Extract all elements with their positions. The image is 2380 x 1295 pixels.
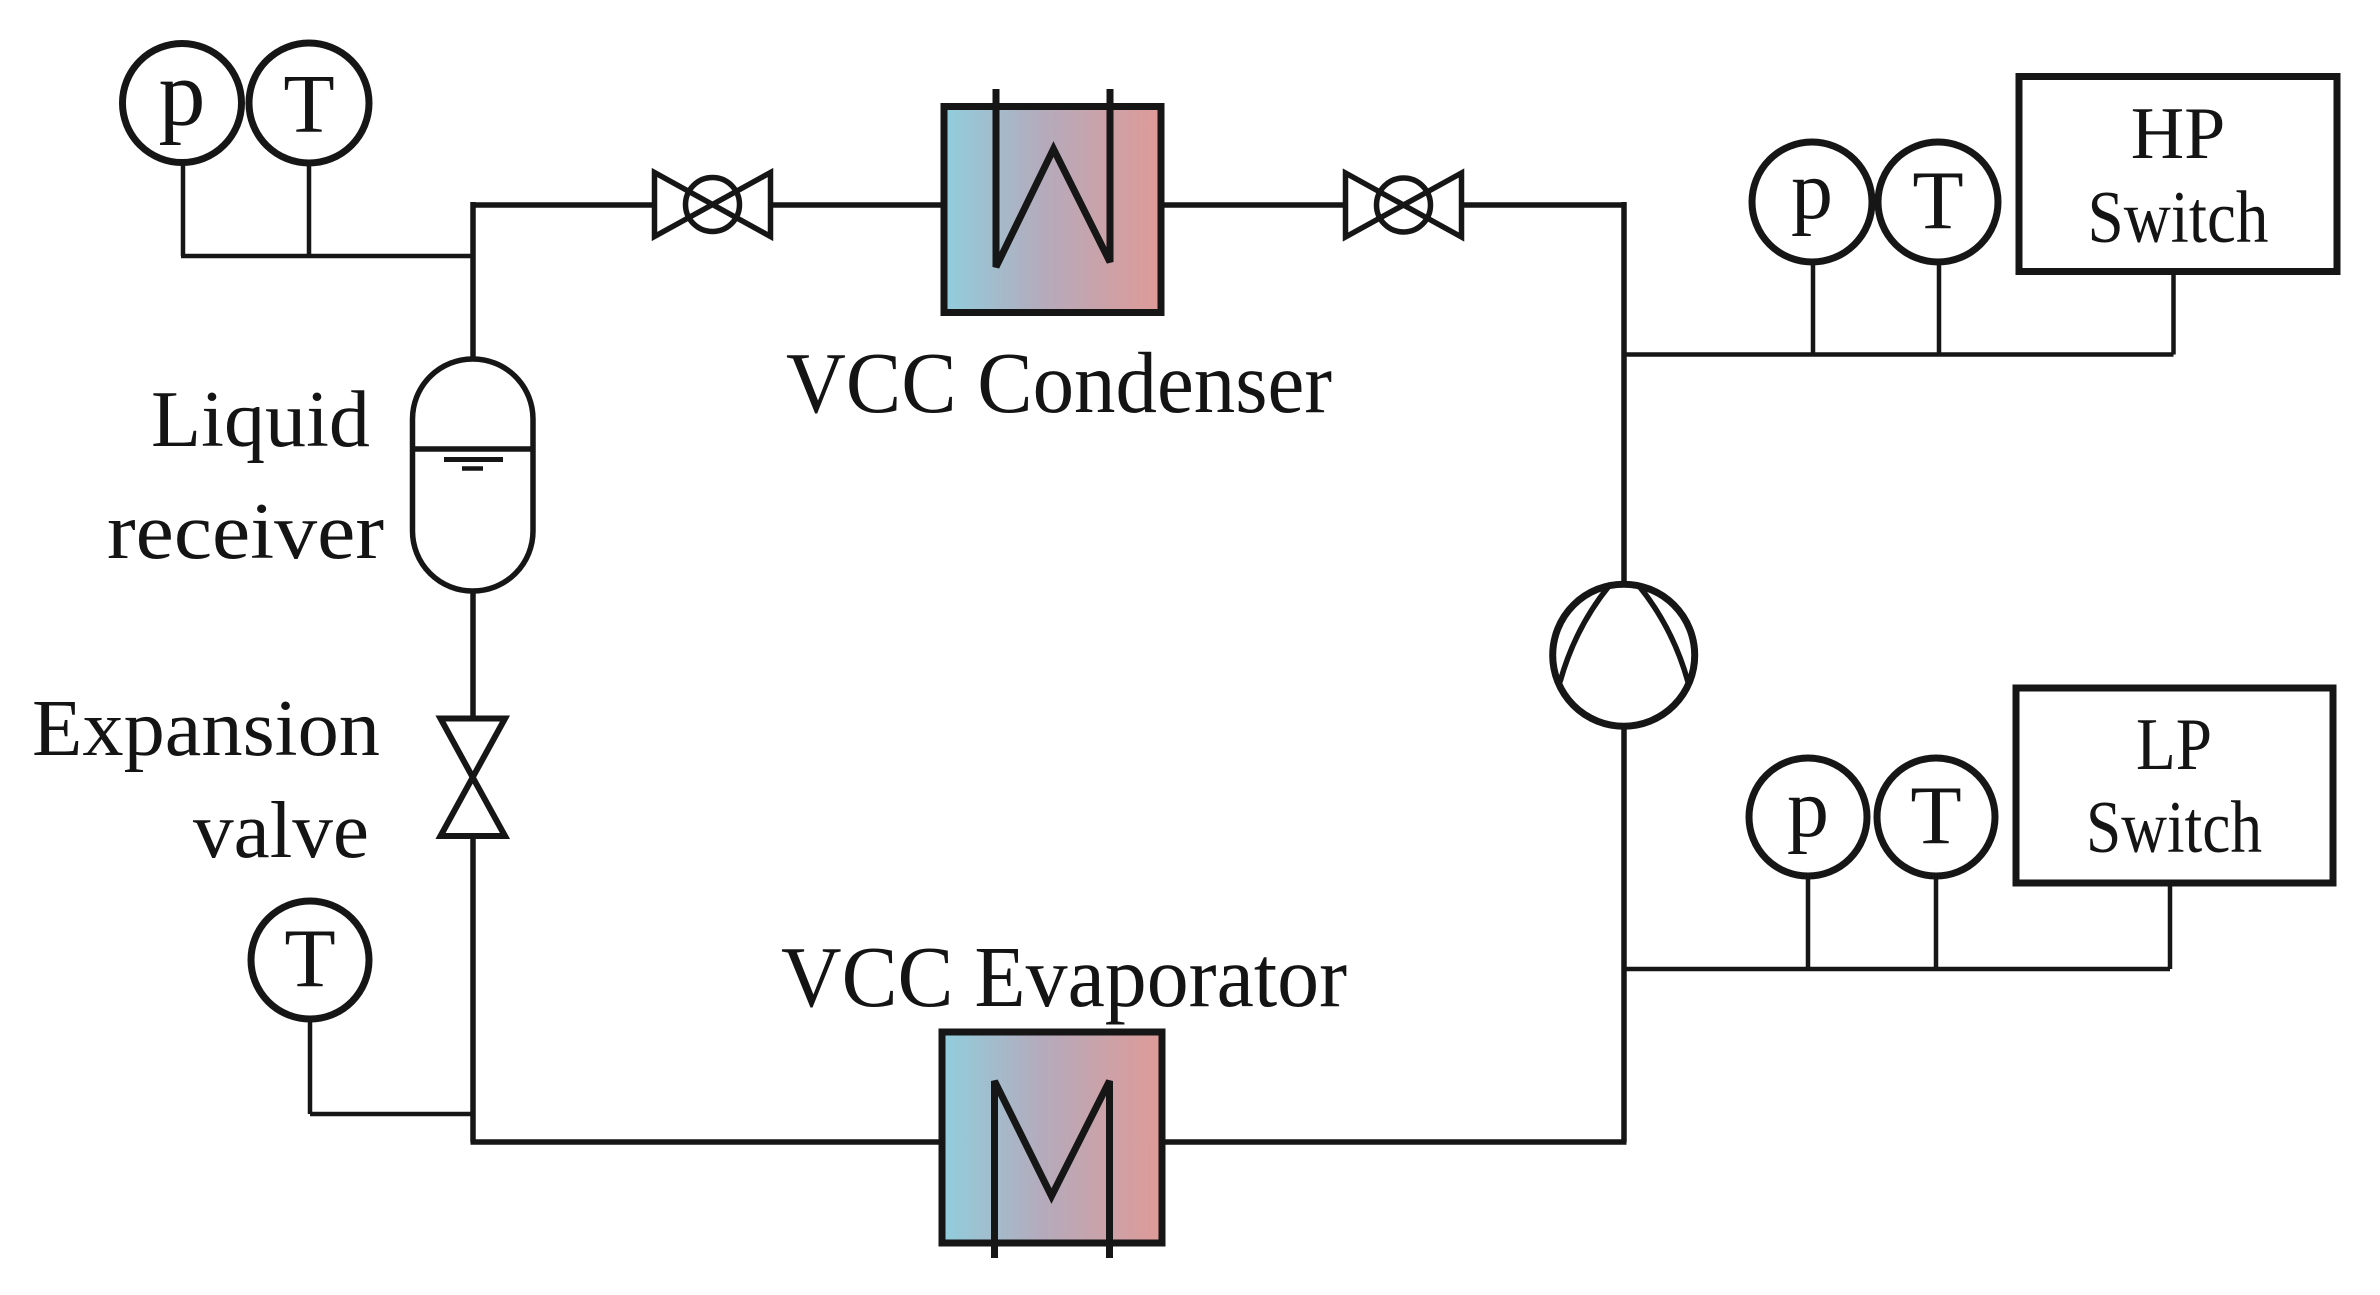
wire: T4 harness horizontal to left pipe bbox=[310, 1112, 473, 1117]
svg-text:VCC Condenser: VCC Condenser bbox=[786, 334, 1332, 431]
wire: discharge harness horizontal bbox=[1624, 352, 2174, 357]
wire: pressure gauge P1 stem bbox=[181, 160, 186, 256]
label: Liquid receiver bbox=[107, 376, 384, 576]
wire: right vertical pipe from node B down to compressor inlet bbox=[1621, 202, 1627, 586]
gauge T3 (suction temperature) bbox=[1877, 758, 1995, 876]
svg-text:T: T bbox=[283, 58, 334, 151]
svg-text:Expansion: Expansion bbox=[32, 685, 380, 773]
svg-text:Switch: Switch bbox=[2088, 177, 2269, 259]
evaporator coil zigzag with stubs down bbox=[995, 1081, 1110, 1258]
wire: left vertical pipe from receiver up to node A bbox=[470, 202, 476, 359]
gauge T1 (liquid line temperature) bbox=[249, 43, 369, 163]
svg-text:Liquid: Liquid bbox=[151, 376, 370, 464]
wire: top pipe from node A to valve V1 bbox=[473, 202, 656, 208]
wire: left vertical pipe from expansion valve up to receiver bbox=[470, 591, 476, 718]
wire: bottom pipe from evaporator inlet to node D bbox=[471, 1139, 943, 1145]
wire: LP switch stem bbox=[2168, 883, 2173, 969]
svg-text:p: p bbox=[1787, 762, 1829, 855]
svg-text:Switch: Switch bbox=[2086, 787, 2262, 869]
wire: bottom pipe from node C to evaporator outlet bbox=[1162, 1139, 1627, 1145]
wire: pipe from compressor outlet down to suction corner node C bbox=[1621, 726, 1627, 1142]
wire: gauge T2 stem bbox=[1937, 261, 1942, 355]
wire: pipe from valve V2 to discharge corner node B bbox=[1464, 202, 1627, 208]
wire: gauge T3 stem bbox=[1934, 877, 1939, 969]
svg-text:p: p bbox=[1791, 144, 1833, 237]
wire: gauge T4 stem bbox=[308, 1018, 313, 1114]
expansion valve bbox=[441, 719, 506, 837]
gauge P1 (liquid line pressure) bbox=[123, 42, 242, 163]
svg-text:T: T bbox=[284, 913, 335, 1006]
gauge T4 (evaporator inlet temperature) bbox=[251, 901, 369, 1019]
heat exchanger: VCC Evaporator box bbox=[942, 1032, 1162, 1258]
svg-text:T: T bbox=[1912, 155, 1963, 248]
wire: suction harness horizontal bbox=[1624, 967, 2170, 972]
valve V1 (condenser inlet shut-off valve) bbox=[655, 173, 771, 237]
svg-text:valve: valve bbox=[193, 787, 369, 875]
svg-text:p: p bbox=[159, 42, 206, 146]
svg-text:HP: HP bbox=[2131, 93, 2226, 175]
svg-text:receiver: receiver bbox=[107, 488, 384, 576]
wire: gauge P2 stem bbox=[1811, 262, 1816, 355]
LP Switch box (low pressure switch) bbox=[2016, 688, 2333, 883]
compressor U1 bbox=[1553, 584, 1695, 726]
label: Expansion valve bbox=[32, 685, 380, 875]
wire: left vertical pipe from node D up to expansion valve bbox=[470, 836, 476, 1142]
HP Switch box (high pressure switch) bbox=[2019, 77, 2337, 272]
condenser coil zigzag with stubs up bbox=[996, 89, 1110, 267]
gauge T2 (discharge temperature) bbox=[1878, 142, 1998, 262]
wire: temperature gauge T1 stem bbox=[307, 161, 312, 256]
wire: HP switch stem bbox=[2171, 271, 2176, 355]
gauge P3 (suction pressure) bbox=[1749, 758, 1867, 876]
svg-text:VCC Evaporator: VCC Evaporator bbox=[781, 928, 1347, 1025]
wire: top pipe from valve V1 to condenser inlet bbox=[769, 202, 944, 208]
wire: P1/T1 harness horizontal to liquid line node bbox=[181, 254, 473, 259]
wire: pipe from condenser outlet to valve V2 bbox=[1161, 202, 1345, 208]
wire: gauge P3 stem bbox=[1806, 877, 1811, 969]
svg-text:LP: LP bbox=[2136, 704, 2212, 786]
svg-text:T: T bbox=[1910, 770, 1961, 863]
valve V2 (condenser outlet shut-off valve) bbox=[1346, 173, 1462, 237]
heat exchanger: VCC Condenser box bbox=[944, 89, 1161, 313]
gauge P2 (discharge pressure) bbox=[1752, 142, 1872, 262]
liquid receiver vessel bbox=[413, 359, 534, 591]
